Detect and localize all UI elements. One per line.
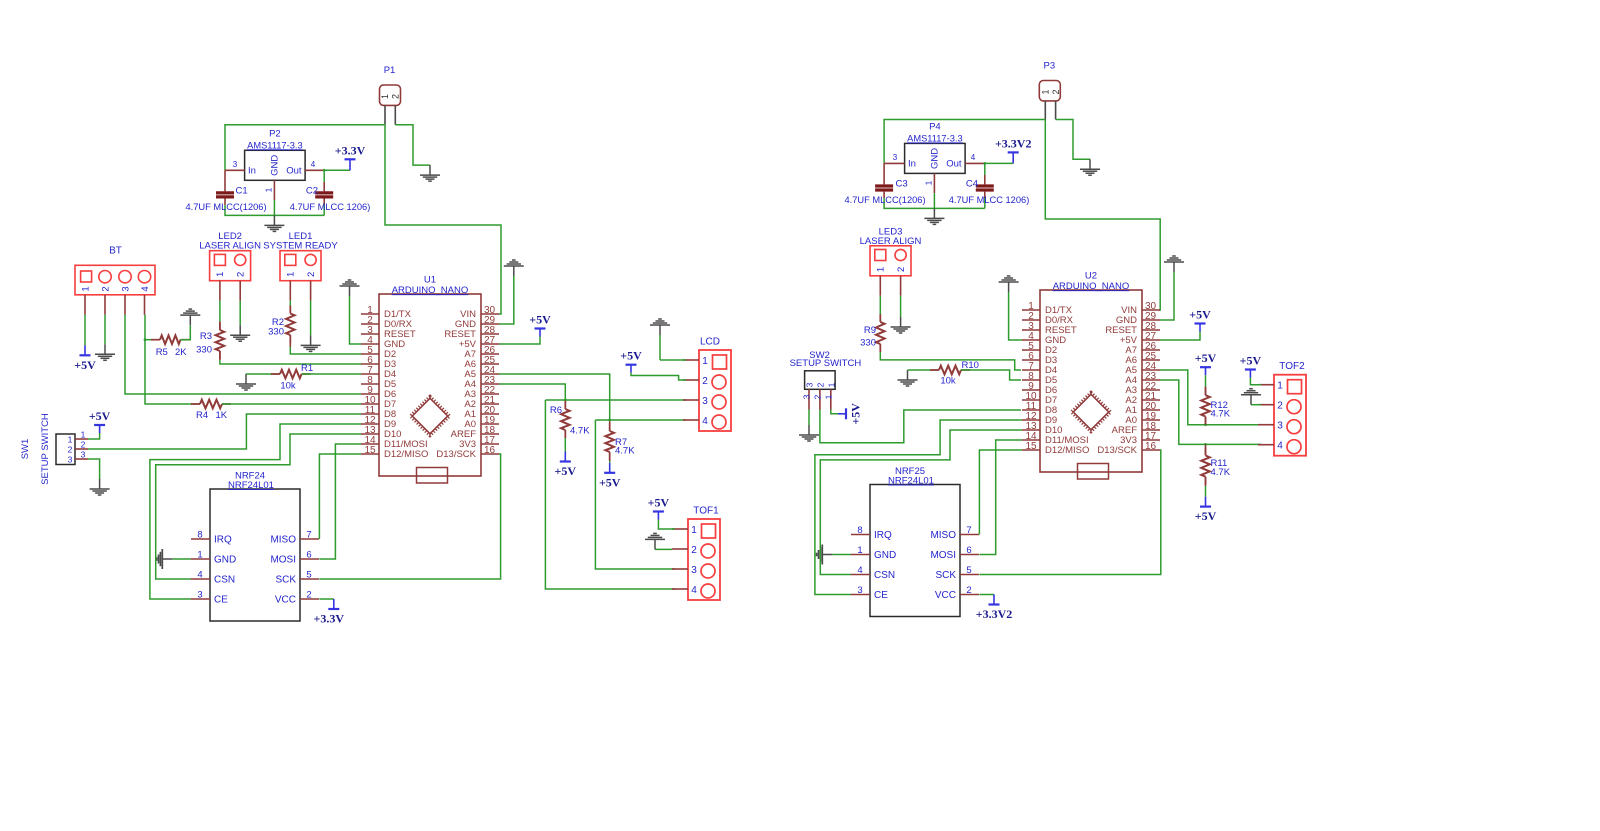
svg-text:+5V: +5V [89,409,111,423]
svg-text:NRF24L01: NRF24L01 [228,480,274,491]
svg-text:4: 4 [971,153,976,162]
svg-text:SETUP SWITCH: SETUP SWITCH [790,358,862,369]
svg-text:1: 1 [80,286,91,291]
svg-text:4: 4 [702,416,708,427]
svg-text:IRQ: IRQ [874,530,892,541]
svg-text:2: 2 [1277,401,1283,412]
svg-text:3: 3 [197,590,202,601]
svg-text:6: 6 [966,545,971,556]
svg-text:1: 1 [1041,89,1051,94]
svg-text:8: 8 [197,530,202,541]
svg-text:+3.3V2: +3.3V2 [995,136,1032,150]
svg-text:2: 2 [896,267,907,272]
svg-text:1: 1 [68,435,73,445]
svg-text:3: 3 [120,286,131,291]
svg-text:R9: R9 [864,325,876,336]
svg-text:P2: P2 [269,128,281,139]
svg-text:AMS1117-3.3: AMS1117-3.3 [247,140,302,150]
svg-text:U2: U2 [1085,271,1097,282]
svg-text:2: 2 [812,394,822,399]
svg-text:+5V: +5V [1195,509,1217,523]
svg-text:2: 2 [306,590,311,601]
svg-text:GND: GND [214,555,236,566]
svg-text:MISO: MISO [930,530,956,541]
svg-text:4.7UF MLCC(1206): 4.7UF MLCC(1206) [185,202,266,212]
svg-text:1: 1 [264,187,274,192]
svg-text:Out: Out [286,166,302,177]
svg-text:4.7K: 4.7K [570,426,590,437]
svg-text:+5V: +5V [849,403,863,425]
svg-text:TOF2: TOF2 [1279,361,1305,372]
svg-text:1K: 1K [216,410,228,421]
svg-text:C2: C2 [306,185,318,196]
svg-text:1: 1 [1277,381,1283,392]
svg-text:SW1: SW1 [20,439,31,460]
svg-text:5: 5 [306,570,311,581]
svg-text:1: 1 [924,180,934,185]
svg-text:IRQ: IRQ [214,535,232,546]
svg-text:+5V: +5V [620,349,642,363]
svg-text:1: 1 [81,430,86,440]
svg-text:3: 3 [805,382,815,387]
svg-text:16: 16 [484,445,496,456]
svg-text:4: 4 [197,570,202,581]
svg-text:LASER ALIGN: LASER ALIGN [860,236,922,247]
svg-text:330: 330 [196,345,212,356]
svg-text:4.7UF MLCC 1206): 4.7UF MLCC 1206) [949,195,1030,205]
svg-text:SYSTEM READY: SYSTEM READY [263,241,338,252]
svg-text:SCK: SCK [275,575,296,586]
svg-text:7: 7 [306,530,311,541]
svg-text:CSN: CSN [214,575,235,586]
svg-text:C3: C3 [896,178,908,189]
svg-text:TOF1: TOF1 [693,505,719,516]
svg-text:AMS1117-3.3: AMS1117-3.3 [907,133,962,143]
svg-text:1: 1 [876,267,887,272]
svg-text:+5V: +5V [1195,351,1217,365]
svg-text:15: 15 [364,445,376,456]
svg-text:R5: R5 [156,347,168,358]
svg-text:+3.3V: +3.3V [335,143,366,157]
svg-text:D13/SCK: D13/SCK [436,449,476,460]
svg-text:P4: P4 [929,122,941,133]
svg-text:In: In [908,159,916,170]
svg-text:7: 7 [966,525,971,536]
svg-text:1: 1 [857,545,862,556]
svg-text:MOSI: MOSI [270,555,296,566]
svg-text:2: 2 [815,382,825,387]
svg-text:4: 4 [140,286,151,291]
svg-text:+5V: +5V [599,475,621,489]
svg-text:+5V: +5V [74,358,96,372]
svg-text:2: 2 [81,440,86,450]
svg-text:4.7UF MLCC(1206): 4.7UF MLCC(1206) [844,195,925,205]
svg-text:3: 3 [802,394,812,399]
svg-text:+5V: +5V [529,313,551,327]
svg-text:Out: Out [946,159,962,170]
svg-text:1: 1 [197,550,202,561]
svg-text:2: 2 [966,585,971,596]
svg-text:10k: 10k [940,376,956,387]
svg-text:330: 330 [860,338,876,349]
svg-text:+3.3V: +3.3V [314,612,345,626]
svg-text:CE: CE [874,590,888,601]
svg-text:2: 2 [236,272,247,277]
svg-text:3: 3 [857,585,862,596]
svg-text:MISO: MISO [270,535,296,546]
svg-text:4: 4 [311,160,316,169]
svg-text:3: 3 [893,153,898,162]
svg-text:3: 3 [81,450,86,460]
svg-text:4.7K: 4.7K [1211,409,1231,420]
svg-text:1: 1 [702,356,708,367]
svg-text:1: 1 [380,94,390,99]
svg-text:SCK: SCK [935,570,956,581]
svg-text:1: 1 [215,272,226,277]
svg-text:3: 3 [68,455,73,465]
svg-text:D13/SCK: D13/SCK [1097,445,1137,456]
svg-text:SETUP SWITCH: SETUP SWITCH [40,413,51,485]
svg-text:330: 330 [268,327,284,338]
svg-text:1: 1 [826,382,836,387]
svg-text:LASER ALIGN: LASER ALIGN [199,241,261,252]
svg-text:BT: BT [109,246,122,257]
svg-text:1: 1 [691,525,697,536]
svg-text:LCD: LCD [700,336,720,347]
svg-text:GND: GND [930,148,941,169]
svg-text:CSN: CSN [874,570,895,581]
svg-text:2: 2 [68,445,73,455]
svg-text:2: 2 [691,545,697,556]
svg-text:C1: C1 [236,185,248,196]
svg-text:R4: R4 [196,410,208,421]
svg-text:R6: R6 [550,405,562,416]
svg-text:In: In [248,166,256,177]
svg-text:16: 16 [1145,441,1157,452]
svg-text:6: 6 [306,550,311,561]
svg-text:+5V: +5V [555,464,577,478]
svg-text:4.7K: 4.7K [615,446,635,457]
svg-text:3: 3 [1277,421,1283,432]
svg-text:C4: C4 [966,178,978,189]
svg-text:ARDUINO_NANO: ARDUINO_NANO [392,285,469,296]
svg-text:D12/MISO: D12/MISO [384,449,428,460]
svg-text:3: 3 [702,396,708,407]
svg-text:5: 5 [966,565,971,576]
svg-text:+3.3V2: +3.3V2 [976,607,1013,621]
svg-text:4: 4 [857,565,862,576]
svg-text:10k: 10k [280,381,296,392]
svg-text:2: 2 [702,376,708,387]
svg-text:4.7UF MLCC 1206): 4.7UF MLCC 1206) [290,202,371,212]
svg-text:+5V: +5V [1240,354,1262,368]
svg-text:VCC: VCC [275,595,296,606]
svg-text:8: 8 [857,525,862,536]
svg-text:2: 2 [1051,89,1061,94]
svg-text:GND: GND [270,155,281,176]
svg-text:1: 1 [286,272,297,277]
svg-text:VCC: VCC [935,590,956,601]
svg-text:4: 4 [691,585,697,596]
svg-text:R1: R1 [301,363,313,374]
svg-text:4: 4 [1277,441,1283,452]
svg-text:2: 2 [391,94,401,99]
svg-text:CE: CE [214,595,228,606]
svg-text:3: 3 [233,160,238,169]
svg-text:+5V: +5V [648,496,670,510]
svg-text:2: 2 [306,272,317,277]
svg-text:GND: GND [874,550,896,561]
svg-text:1: 1 [823,394,833,399]
svg-text:2: 2 [100,286,111,291]
svg-text:R3: R3 [200,331,212,342]
svg-text:P1: P1 [384,65,396,76]
svg-text:ARDUINO_NANO: ARDUINO_NANO [1053,281,1130,292]
svg-text:3: 3 [691,565,697,576]
svg-text:15: 15 [1025,441,1037,452]
svg-text:2K: 2K [175,347,187,358]
svg-text:+5V: +5V [1189,308,1211,322]
svg-text:4.7K: 4.7K [1211,467,1231,478]
svg-text:MOSI: MOSI [930,550,956,561]
svg-text:P3: P3 [1043,61,1055,72]
svg-text:D12/MISO: D12/MISO [1045,445,1089,456]
svg-text:U1: U1 [424,275,436,286]
svg-text:NRF24L01: NRF24L01 [888,476,934,487]
svg-text:R10: R10 [962,360,979,371]
